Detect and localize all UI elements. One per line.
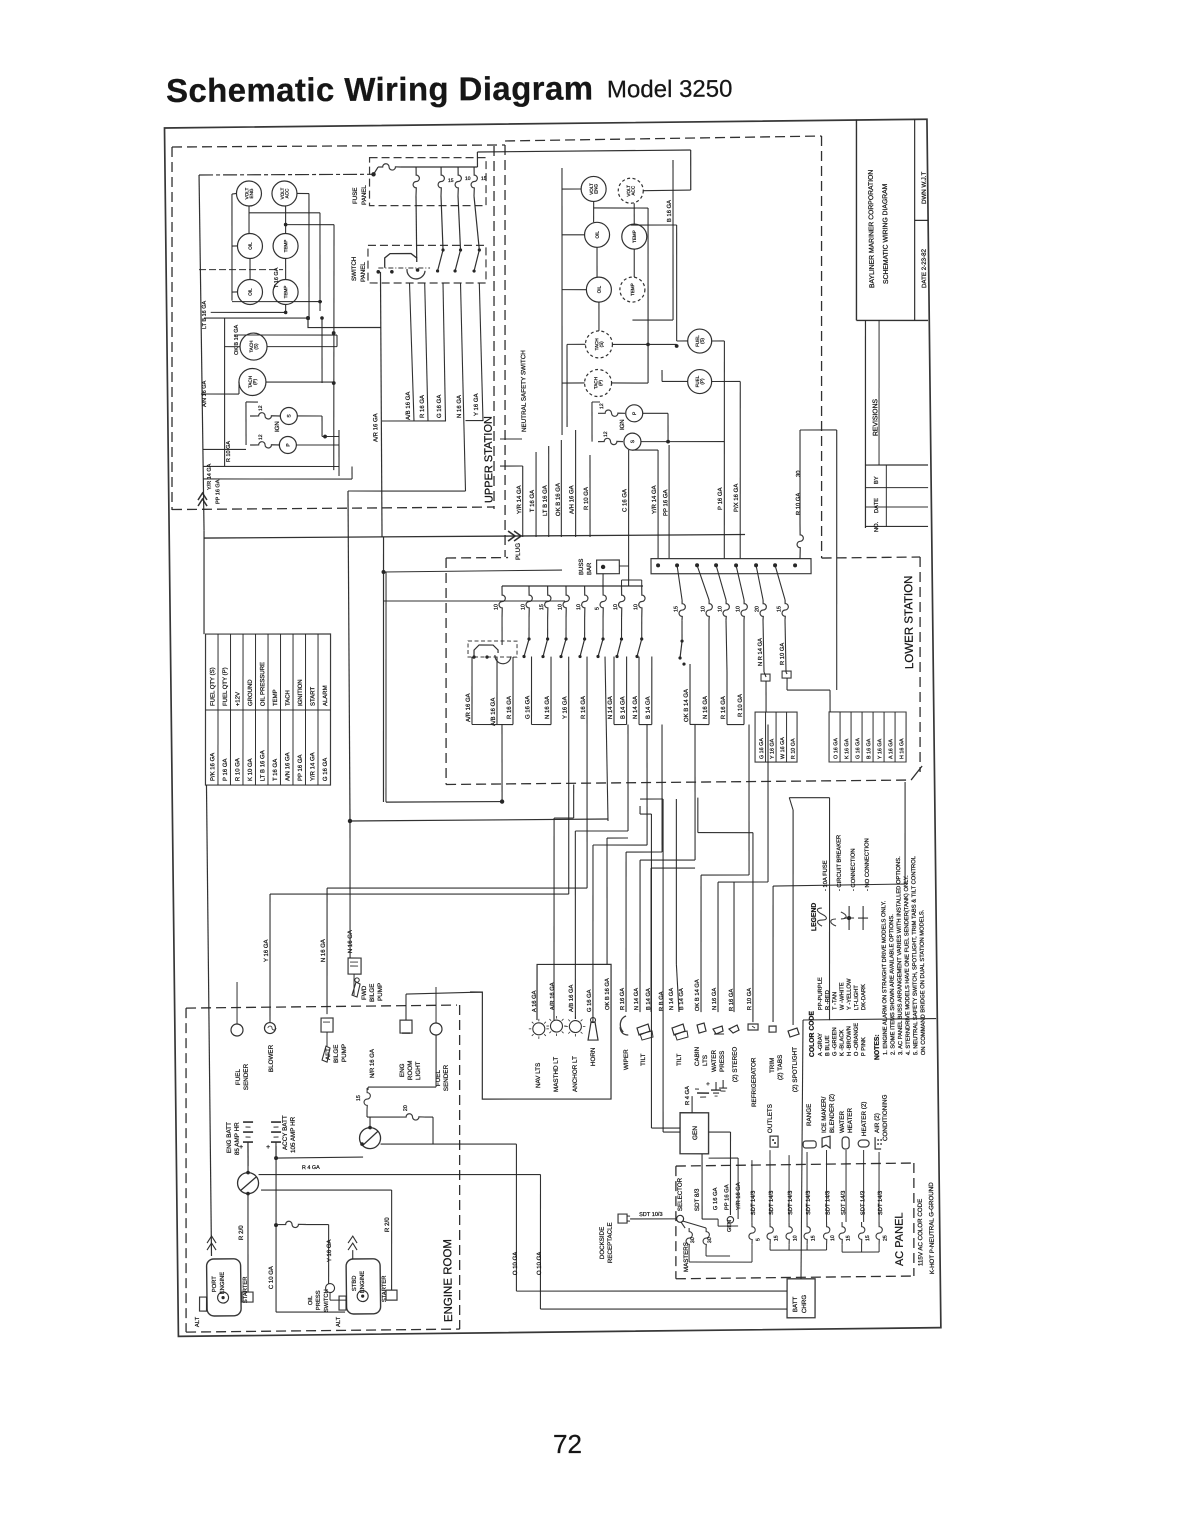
wire horn step: [590, 725, 651, 1023]
svg-text:Y 16 GA: Y 16 GA: [474, 393, 480, 416]
svg-text:ENGINE ROOM: ENGINE ROOM: [442, 1239, 455, 1322]
wire blower feeds vertical: [269, 1022, 271, 1028]
svg-text:SWITCH: SWITCH: [351, 257, 358, 281]
fuse F5: [471, 167, 487, 196]
svg-text:GROUND: GROUND: [248, 679, 254, 706]
svg-text:- CIRCUIT BREAKER: - CIRCUIT BREAKER: [836, 835, 843, 891]
svg-text:ALARM: ALARM: [323, 685, 329, 706]
wire N/R 16 GA: [370, 1049, 376, 1078]
svg-text:DWN W.J.T: DWN W.J.T: [921, 171, 928, 204]
svg-text:HORN: HORN: [590, 1047, 597, 1066]
svg-text:Y/R 16 GA: Y/R 16 GA: [736, 1182, 742, 1210]
wire fuse F2 to ignition switch: [415, 196, 418, 258]
wire A/R 16 GA feed group: [465, 657, 513, 727]
wire A/H 16 GA drop: [569, 430, 577, 537]
buss bar strip: [651, 557, 811, 576]
wire main plug bus: [204, 532, 745, 541]
svg-text:A/B 16 GA: A/B 16 GA: [569, 985, 575, 1013]
svg-text:Y 16 GA: Y 16 GA: [769, 738, 775, 759]
svg-text:Y -YELLOW: Y -YELLOW: [847, 978, 853, 1010]
svg-text:30: 30: [796, 471, 802, 478]
svg-text:A 16 GA: A 16 GA: [888, 739, 894, 760]
wire aft pump N 16 GA run: [320, 885, 588, 1014]
wire OK B 14 GA drop: [683, 664, 709, 725]
svg-text:PRESS: PRESS: [316, 1290, 322, 1310]
wire fuse R2 drop: [708, 620, 709, 672]
wire R 10 GA right long drop: [738, 672, 745, 725]
svg-text:OIL: OIL: [248, 288, 253, 296]
svg-text:TEMP: TEMP: [630, 283, 635, 296]
wire gen feed runs: [640, 799, 680, 1133]
switch SL6 lower station: [596, 617, 605, 658]
fuse L6 5A lower station: [594, 586, 606, 617]
gauge OIL 2 lower station: [586, 277, 611, 302]
svg-text:10: 10: [717, 606, 723, 612]
svg-text:PANEL: PANEL: [360, 262, 367, 282]
fuse 15A engine room: [356, 1088, 371, 1110]
fuse L8 10A lower station: [633, 586, 645, 617]
fuse R6 15A lower station: [775, 565, 788, 620]
svg-text:115V AC COLOR CODE: 115V AC COLOR CODE: [917, 1199, 925, 1266]
notes block: [872, 855, 927, 1060]
fuse R1 15A lower station: [673, 565, 686, 620]
svg-text:PP 16 GA: PP 16 GA: [298, 754, 304, 781]
title text: [166, 69, 733, 109]
engine room label: [442, 1239, 455, 1322]
wire OK B 16 GA drop: [555, 440, 562, 537]
svg-text:OIL: OIL: [597, 285, 602, 293]
svg-text:C 16 GA: C 16 GA: [622, 489, 628, 512]
svg-text:OK B 16 GA: OK B 16 GA: [605, 978, 611, 1010]
svg-text:(S): (S): [700, 337, 705, 344]
svg-text:WATER: WATER: [711, 1049, 718, 1072]
svg-text:PUMP: PUMP: [377, 983, 384, 1001]
svg-text:PP-PURPLE: PP-PURPLE: [818, 977, 824, 1010]
main breaker dashed box lower station: [468, 640, 517, 664]
svg-text:OK B 14 GA: OK B 14 GA: [695, 979, 701, 1011]
svg-text:30: 30: [690, 1237, 696, 1243]
svg-text:15: 15: [776, 606, 782, 612]
aft bilge pump: [321, 1018, 348, 1064]
svg-text:72: 72: [553, 1429, 582, 1459]
wire fuse R5 drop: [762, 620, 765, 672]
color code block: [808, 977, 868, 1058]
wire upper cluster left rail: [199, 175, 204, 530]
engine room dashed border: [182, 1005, 463, 1332]
svg-text:(2) SPOTLIGHT: (2) SPOTLIGHT: [792, 1047, 800, 1092]
svg-text:SCHEMATIC WIRING DIAGRAM: SCHEMATIC WIRING DIAGRAM: [882, 183, 890, 284]
switch panel dashed box: [368, 244, 487, 284]
label NEUTRAL SAFETY SWITCH: [499, 350, 528, 440]
blower device: [264, 1022, 276, 1072]
svg-text:- CONNECTION: - CONNECTION: [851, 848, 857, 891]
wire upper cluster bus to switch panel: [204, 316, 382, 466]
svg-text:R 10 GA: R 10 GA: [226, 441, 232, 462]
wire gauge interconnects upper cluster: [198, 192, 337, 471]
wire fuse L1 to breaker: [501, 617, 504, 645]
junction dots lower cluster: [646, 342, 679, 443]
svg-text:H 16 GA: H 16 GA: [899, 738, 905, 759]
wire R 10 GA drop: [583, 455, 591, 537]
svg-text:T 16 GA: T 16 GA: [273, 759, 279, 781]
fuse R5 20A lower station: [754, 565, 767, 620]
svg-text:R 2/0: R 2/0: [238, 1225, 245, 1240]
wire PP 16 GA upper station: [203, 467, 353, 505]
cabin lights device: [694, 1023, 709, 1066]
gauge TACH S lower station: [585, 331, 612, 358]
svg-text:10: 10: [465, 176, 471, 182]
wire crossover lower run: [384, 599, 566, 603]
gauge TACH S upper station: [240, 333, 267, 360]
svg-text:TILT: TILT: [676, 1053, 683, 1066]
wire fuse R3 drop: [725, 620, 728, 672]
svg-text:R 16 GA: R 16 GA: [721, 696, 727, 719]
junction y802: [500, 799, 504, 803]
wire long run y802: [383, 571, 503, 803]
gauge VOLT ENG upper station: [236, 181, 261, 206]
svg-text:(S): (S): [599, 341, 604, 348]
wire water press step: [715, 724, 772, 1012]
fuse 12A S lower station: [598, 431, 623, 445]
wire stereo drop: [733, 882, 736, 1012]
svg-text:10: 10: [830, 1235, 836, 1241]
buss bar label: [579, 559, 593, 576]
svg-text:G 16 GA: G 16 GA: [525, 696, 531, 719]
svg-text:G 16 GA: G 16 GA: [855, 738, 861, 759]
svg-text:N 16 GA: N 16 GA: [348, 930, 354, 953]
svg-text:P 16 GA: P 16 GA: [223, 758, 229, 781]
fuse F4: [455, 167, 471, 196]
svg-text:(2) STEREO: (2) STEREO: [732, 1047, 739, 1083]
svg-text:B 16 GA: B 16 GA: [667, 200, 673, 222]
svg-text:H -BROWN: H -BROWN: [846, 1026, 852, 1056]
svg-text:BAYLINER MARINER CORPORATION: BAYLINER MARINER CORPORATION: [868, 170, 876, 288]
svg-text:PRESS: PRESS: [719, 1051, 726, 1072]
svg-text:OK B 14 GA: OK B 14 GA: [684, 689, 690, 722]
fuse L1 10A lower station: [493, 586, 505, 617]
svg-text:ACC: ACC: [631, 185, 636, 195]
svg-text:REVISIONS: REVISIONS: [872, 398, 879, 436]
svg-text:R -RED: R -RED: [825, 990, 831, 1010]
svg-text:12: 12: [599, 403, 605, 409]
svg-text:G 16 GA: G 16 GA: [323, 758, 329, 781]
wire wiper step: [623, 725, 666, 1013]
svg-text:15: 15: [845, 1235, 851, 1241]
outlets device: [767, 1104, 778, 1147]
wire Y 16 GA long drop: [562, 657, 571, 895]
svg-text:DATE 2-23-82: DATE 2-23-82: [921, 248, 928, 288]
fuse L4 10A lower station: [557, 586, 569, 617]
svg-text:(P): (P): [700, 378, 705, 385]
switch SL7 lower station: [615, 617, 623, 658]
svg-text:R 10 GA: R 10 GA: [738, 694, 744, 717]
switch SL3 lower station: [541, 617, 549, 658]
wire Y/R 14 GA second drop: [632, 450, 659, 559]
svg-text:TACH: TACH: [285, 690, 291, 706]
wire N 16 GA down: [456, 283, 466, 491]
svg-text:Y/R 14 GA: Y/R 14 GA: [652, 485, 658, 514]
svg-text:Model 3250: Model 3250: [607, 76, 733, 104]
svg-text:R 10 GA: R 10 GA: [790, 738, 796, 759]
svg-text:O -ORANGE: O -ORANGE: [854, 1023, 860, 1056]
junction crossover: [382, 570, 386, 574]
wire table to engine room: [206, 785, 212, 1256]
svg-text:N 14 GA: N 14 GA: [608, 696, 614, 719]
lower station label: [903, 575, 916, 669]
wire lower cluster feed from fuse panel: [643, 150, 691, 191]
svg-text:BAR: BAR: [587, 562, 593, 575]
wire selector2 output run right: [381, 1143, 517, 1146]
svg-text:15: 15: [481, 176, 487, 182]
svg-text:N 16 GA: N 16 GA: [457, 395, 463, 418]
selector node: [676, 1177, 701, 1222]
svg-text:PP 16 GA: PP 16 GA: [724, 1184, 730, 1210]
fuel sender stbd: [430, 987, 450, 1091]
svg-text:CABIN: CABIN: [694, 1046, 701, 1066]
ac panel label: [893, 1212, 906, 1266]
svg-text:TEMP: TEMP: [283, 240, 288, 253]
plug connector arrows: [508, 531, 522, 560]
wire riser to right station: [477, 150, 691, 167]
junction accy batt: [273, 1156, 279, 1227]
svg-text:ICE MAKER/: ICE MAKER/: [821, 1096, 828, 1133]
fuse F2: [413, 167, 420, 196]
ice maker blender device: [821, 1094, 837, 1148]
gauge TEMP 2 upper station: [273, 279, 298, 304]
svg-text:REFRIGERATOR: REFRIGERATOR: [750, 1057, 758, 1107]
svg-text:P/K 16 GA: P/K 16 GA: [210, 753, 216, 781]
wire R 16 GA right drop: [721, 672, 745, 725]
wire R 16 GA long drop: [580, 657, 589, 889]
switch SL5 lower station: [578, 617, 586, 658]
svg-text:SENDER: SENDER: [243, 1063, 250, 1090]
svg-text:ANCHOR LT: ANCHOR LT: [572, 1056, 579, 1092]
svg-text:WATER: WATER: [839, 1111, 846, 1134]
svg-text:STBD: STBD: [352, 1276, 358, 1292]
svg-text:P PINK: P PINK: [861, 1037, 867, 1056]
sdt circuit columns: [748, 1189, 888, 1262]
switch panel terminal dots: [376, 268, 419, 274]
svg-text:10: 10: [521, 604, 527, 610]
wire ignition cluster upper station: [246, 401, 340, 477]
switch SR1 lower station: [678, 620, 686, 666]
generator GEN: [680, 1112, 709, 1154]
fuse 20A engine room: [370, 1105, 433, 1145]
title block DWN text: [921, 171, 928, 204]
svg-text:- NO CONNECTION: - NO CONNECTION: [864, 838, 871, 891]
gauge OIL 1 lower station: [584, 222, 609, 247]
svg-text:W 16 GA: W 16 GA: [780, 737, 786, 759]
svg-text:WIPER: WIPER: [623, 1049, 630, 1070]
svg-text:B BLUE: B BLUE: [825, 1035, 831, 1056]
svg-text:(P): (P): [598, 379, 603, 386]
revisions column: [863, 320, 881, 528]
wire lower cluster interconnects: [559, 160, 679, 435]
wire refrigerator drop: [697, 797, 755, 1023]
svg-text:OK B 16 GA: OK B 16 GA: [234, 324, 240, 355]
svg-text:A/N 16 GA: A/N 16 GA: [202, 380, 208, 407]
svg-text:15: 15: [539, 604, 545, 610]
wire fuse15 to selector2: [367, 1110, 370, 1128]
svg-text:ENGINE: ENGINE: [220, 1272, 226, 1294]
wire A/B 16 GA to gather: [404, 283, 414, 421]
svg-text:A -GRAY: A -GRAY: [818, 1033, 824, 1056]
wire selector outputs to batt charger: [516, 1288, 787, 1312]
wire gen Y/R and labels: [709, 1158, 743, 1227]
svg-text:A/N 16 GA: A/N 16 GA: [285, 752, 291, 781]
svg-text:N 16 GA: N 16 GA: [545, 696, 551, 719]
wire Y/R 14 GA drop lower station: [500, 466, 524, 537]
svg-text:R 10 GA: R 10 GA: [780, 643, 786, 665]
port engine: [194, 1236, 249, 1328]
battery charger: [784, 1018, 940, 1318]
svg-text:BILGE: BILGE: [333, 1044, 340, 1063]
svg-text:K 10 GA: K 10 GA: [248, 758, 254, 781]
svg-text:R 10 GA: R 10 GA: [796, 493, 802, 515]
ignition terminal P upper station: [279, 436, 296, 453]
wire FUEL gauges lower cluster: [662, 340, 741, 382]
svg-text:NOTES:: NOTES:: [874, 1034, 881, 1060]
svg-text:(2) TABS: (2) TABS: [777, 1055, 784, 1080]
wire LT B 16 GA drop: [542, 446, 550, 537]
refrigerator device: [748, 1024, 759, 1107]
gauge FUEL P lower station: [688, 369, 712, 393]
wire Y 16 GA oil switch: [327, 1225, 334, 1284]
svg-text:15: 15: [810, 1235, 816, 1241]
battery symbol gen: [685, 1081, 711, 1113]
lamp MASTHD LT: [546, 1016, 567, 1092]
svg-text:BATT: BATT: [792, 1296, 799, 1312]
fuse L7 10A lower station: [613, 586, 625, 617]
junction ignition: [323, 435, 327, 439]
svg-text:N R 14 GA: N R 14 GA: [758, 638, 764, 666]
svg-text:T 16 GA: T 16 GA: [274, 267, 280, 288]
wire G 16 GA to gather: [436, 283, 446, 421]
svg-text:ENG: ENG: [249, 188, 254, 198]
svg-text:N 16 GA: N 16 GA: [703, 696, 709, 719]
svg-text:NAV LTS: NAV LTS: [535, 1063, 542, 1088]
horn device: [588, 1017, 599, 1066]
svg-text:ENG: ENG: [593, 184, 598, 194]
svg-text:5: 5: [755, 1238, 761, 1241]
fuse R2 10A lower station: [697, 565, 712, 620]
svg-text:PLUG: PLUG: [515, 543, 522, 560]
svg-text:TEMP: TEMP: [273, 689, 279, 706]
wire spotlight run: [789, 797, 832, 1025]
junction switch panel feed: [306, 316, 310, 320]
svg-text:G 16 GA: G 16 GA: [587, 989, 593, 1012]
svg-text:IGNITION: IGNITION: [298, 679, 304, 706]
svg-text:DOCKSIDE: DOCKSIDE: [599, 1227, 606, 1259]
svg-text:T -TAN: T -TAN: [832, 992, 838, 1010]
wire stbd starter feed R 2/0: [261, 1188, 397, 1301]
svg-text:R 16 GA: R 16 GA: [507, 696, 513, 719]
dockside receptacle: [599, 1212, 677, 1264]
fuse R4 10A lower station: [735, 565, 748, 620]
svg-text:20: 20: [754, 606, 760, 612]
stbd engine: [335, 1236, 388, 1327]
svg-text:OIL: OIL: [248, 242, 253, 250]
legend block: [810, 834, 872, 931]
wire long run y821 fwd pump feed: [350, 818, 608, 822]
svg-text:R 16 GA: R 16 GA: [620, 988, 626, 1010]
fuse L5 10A lower station: [576, 586, 588, 617]
svg-text:BUSS: BUSS: [579, 559, 585, 575]
wire 30A fuse riser: [799, 430, 840, 691]
svg-text:TRIM: TRIM: [769, 1058, 776, 1073]
svg-text:O 10 GA: O 10 GA: [537, 1252, 543, 1275]
wire gather line upper outputs: [382, 420, 483, 422]
svg-text:Y 16 GA: Y 16 GA: [562, 696, 568, 719]
svg-text:N 16 GA: N 16 GA: [712, 988, 718, 1010]
junction fuse panel feed: [371, 172, 375, 176]
svg-text:A/B 16 GA: A/B 16 GA: [491, 698, 497, 726]
svg-text:15: 15: [673, 606, 679, 612]
svg-text:W -WHITE: W -WHITE: [839, 982, 845, 1010]
svg-text:ENGINE: ENGINE: [360, 1271, 366, 1293]
svg-text:10: 10: [494, 604, 500, 610]
svg-text:N 14 GA: N 14 GA: [669, 988, 675, 1010]
wire sdt columns up to devices: [751, 1149, 880, 1224]
svg-text:+: +: [266, 1144, 270, 1151]
fuse F1 main feed: [378, 163, 477, 171]
lower station upper dashed border: [500, 136, 826, 562]
wire T 16 GA drop: [529, 452, 537, 537]
junction dots upper cluster: [283, 222, 336, 385]
table wire codes left: [754, 712, 797, 763]
svg-text:SWITCH: SWITCH: [324, 1289, 330, 1312]
svg-text:12: 12: [258, 405, 264, 411]
fuse 12A P upper station: [250, 434, 280, 448]
ignition switch SW1 contact arc: [378, 253, 430, 279]
svg-text:FUEL QTY (S): FUEL QTY (S): [210, 667, 216, 706]
wire P/X 16 GA drop: [733, 381, 743, 558]
svg-text:GEN: GEN: [692, 1126, 699, 1140]
svg-text:B 16 GA: B 16 GA: [866, 738, 872, 759]
fuse 12A P lower station: [598, 403, 625, 417]
svg-text:10: 10: [613, 604, 619, 610]
svg-text:ACC: ACC: [284, 188, 289, 198]
svg-text:ENG BATT: ENG BATT: [226, 1122, 233, 1153]
svg-text:FUEL QTY (P): FUEL QTY (P): [223, 667, 229, 706]
svg-text:R B GA: R B GA: [659, 991, 665, 1011]
svg-text:FUSE: FUSE: [352, 187, 359, 204]
device wire gauge labels: [532, 976, 753, 1013]
svg-text:K 16 GA: K 16 GA: [844, 738, 850, 759]
wire left fuse rail: [502, 580, 643, 588]
wire N B 14 GA group 1: [607, 656, 627, 724]
svg-text:HEATER (2): HEATER (2): [861, 1102, 868, 1137]
svg-text:A 16 GA: A 16 GA: [532, 990, 538, 1012]
oil press switch: [308, 1283, 346, 1312]
ignition terminal S upper station: [280, 407, 297, 424]
svg-text:STARTER: STARTER: [382, 1276, 388, 1303]
wire A/R 16 GA switch feed down to plug bus: [372, 272, 384, 537]
title block U1 outline: [854, 119, 929, 322]
svg-text:IGN: IGN: [275, 421, 281, 432]
gauge TACH P lower station: [584, 369, 611, 396]
svg-text:Y/R 14 GA: Y/R 14 GA: [310, 752, 316, 781]
svg-text:ENG: ENG: [399, 1063, 406, 1077]
title block company text: [868, 169, 890, 288]
svg-text:RANGE: RANGE: [806, 1104, 813, 1126]
svg-text:(P): (P): [252, 378, 257, 385]
svg-text:OUTLETS: OUTLETS: [767, 1104, 774, 1133]
svg-text:PP 16 GA: PP 16 GA: [663, 489, 669, 516]
water heater device: [839, 1107, 854, 1149]
svg-text:PP 16 GA: PP 16 GA: [215, 479, 221, 504]
svg-text:25: 25: [883, 1235, 889, 1241]
